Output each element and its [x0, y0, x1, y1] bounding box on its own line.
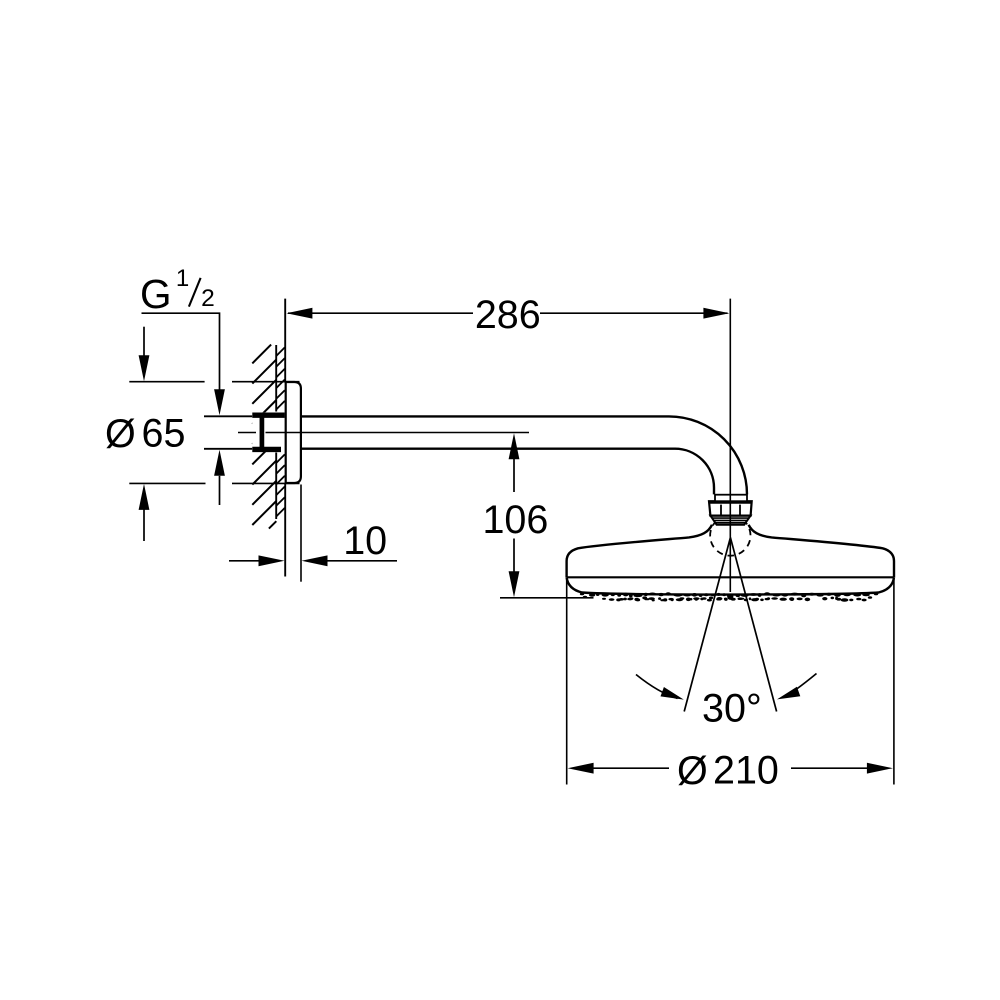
30 degree leader left — [636, 675, 678, 699]
svg-text:G: G — [140, 271, 172, 317]
supply pipe stub lines — [204, 416, 254, 449]
svg-text:65: 65 — [142, 412, 186, 456]
dimension 106 line — [513, 459, 515, 493]
30 degree leader right — [783, 674, 817, 698]
G 1/2 label — [140, 265, 215, 317]
dimension Ø65 upper arrow — [143, 327, 145, 356]
svg-text:Ø: Ø — [677, 749, 708, 793]
spray nozzle speckles — [580, 592, 878, 602]
dimension Ø65 lower arrow — [139, 484, 150, 510]
wall rough-surface line — [275, 345, 277, 519]
dimension Ø210 text — [677, 749, 779, 794]
svg-text:2: 2 — [201, 285, 215, 312]
escutcheon rosette — [286, 382, 301, 483]
dimension Ø210 extension lines — [567, 578, 894, 785]
dimension 106 upper arrow — [509, 433, 520, 459]
dimension 106 lower arrow — [509, 571, 520, 597]
wall finished-surface line — [284, 299, 286, 577]
svg-text:Ø: Ø — [105, 412, 136, 456]
pipe centerline — [238, 432, 529, 434]
arm collar above nut — [715, 495, 747, 502]
union nut — [709, 501, 752, 515]
dimension Ø65 extension lines — [129, 382, 299, 484]
svg-text:106: 106 — [482, 498, 548, 542]
dimension 10 line left part — [229, 560, 260, 562]
G 1/2 upper arrow — [214, 389, 225, 415]
svg-text:210: 210 — [713, 749, 779, 793]
union nut facet lines — [721, 505, 740, 515]
svg-text:1: 1 — [176, 265, 189, 292]
svg-text:30°: 30° — [702, 687, 762, 731]
shower head rim seam line — [567, 576, 894, 578]
dimension Ø65 text — [105, 412, 185, 457]
G 1/2 lower arrow — [214, 450, 225, 476]
spray angle cone lines — [684, 538, 776, 712]
dimension 286 right arrow — [703, 308, 729, 319]
dimension 10 line right part — [327, 560, 398, 562]
dimension 286 left arrow — [286, 308, 312, 319]
svg-text:10: 10 — [343, 519, 387, 563]
head vertical centerline / 286 extension — [729, 299, 731, 592]
concealed fitting thick section bars — [252, 415, 284, 449]
dimension 286 line — [288, 312, 473, 314]
svg-text:286: 286 — [475, 293, 541, 337]
wall hatching short ticks — [276, 347, 285, 516]
dimension 106 bottom extension line — [500, 597, 594, 599]
shower arm outline — [301, 416, 747, 494]
ball joint dashed circle — [706, 511, 755, 560]
centerline dot on spray face — [727, 594, 733, 600]
G 1/2 leader line — [142, 313, 220, 389]
dimension 10 extension line — [300, 485, 302, 582]
dimension Ø210 line — [592, 767, 669, 769]
shower head body outline — [567, 525, 894, 595]
wall hatching long diagonals — [252, 345, 276, 529]
concealed fitting white interior — [252, 412, 284, 451]
flare / ball socket rings — [710, 516, 750, 525]
